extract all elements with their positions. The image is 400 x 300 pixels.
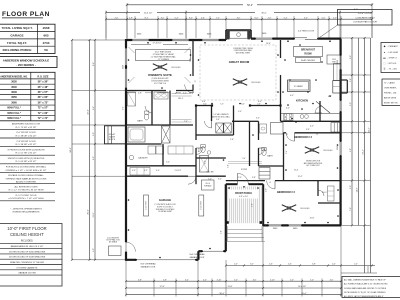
garage service door [126, 242, 135, 251]
pantry door arc [315, 106, 322, 113]
svg-text:BEDROOM # 2: BEDROOM # 2 [277, 190, 295, 194]
svg-text:9'-6": 9'-6" [93, 106, 95, 110]
dimension bottom row1 [126, 280, 341, 282]
svg-text:4x4 CONCRETE: 4x4 CONCRETE [107, 237, 119, 239]
svg-text:36'-0": 36'-0" [219, 293, 225, 295]
garage top wall [126, 175, 188, 177]
owner bath tub [128, 127, 145, 142]
svg-text:72" x 57": 72" x 57" [38, 107, 50, 110]
svg-text:8'-0": 8'-0" [189, 17, 193, 19]
svg-text:CONCRETE PATIO: CONCRETE PATIO [355, 16, 374, 19]
svg-text:5'-0": 5'-0" [166, 161, 170, 163]
interior dimensions [127, 92, 136, 94]
svg-text:4'-0": 4'-0" [286, 108, 290, 110]
breakfast window seat [327, 55, 341, 64]
powder sink [207, 151, 211, 155]
svg-text:ROOM: ROOM [304, 54, 311, 56]
svg-text:TOTAL LIVING SQ.FT.: TOTAL LIVING SQ.FT. [1, 26, 32, 30]
svg-text:7'-6 1/2": 7'-6 1/2" [160, 93, 167, 95]
fireplace [225, 30, 227, 40]
garage entry door [188, 176, 196, 184]
wic bedroom2 [317, 181, 319, 196]
window 3030 bedroom2 bottom 1 [268, 224, 282, 227]
svg-text:2'-0": 2'-0" [238, 177, 242, 179]
ceiling fan owner suite [160, 67, 167, 70]
svg-text:- STRIP LT: - STRIP LT [388, 57, 398, 59]
svg-text:4'-0": 4'-0" [252, 203, 254, 207]
svg-text:R.O. SIZE: R.O. SIZE [38, 75, 49, 78]
svg-text:DOORS IN LIEU OF 3049 WINDOWS: DOORS IN LIEU OF 3049 WINDOWS [9, 257, 46, 259]
svg-text:NOTE EGRESS 5.7 SQ.FT. OF CLEA: NOTE EGRESS 5.7 SQ.FT. OF CLEAR OPENING [344, 291, 386, 294]
svg-text:R.O. 72 3/4" x 82 7/8": R.O. 72 3/4" x 82 7/8" [16, 127, 37, 129]
dimension bottom row0 [226, 265, 375, 267]
svg-text:3'-4": 3'-4" [286, 150, 288, 154]
owner suite bottom wall [126, 90, 166, 92]
svg-text:10'-0": 10'-0" [199, 147, 201, 152]
svg-text:3060: 3060 [11, 101, 17, 104]
laundry room walls [126, 143, 162, 145]
svg-text:5'-0": 5'-0" [322, 17, 326, 19]
kitchen sink [300, 115, 304, 119]
svg-text:5'-0": 5'-0" [93, 248, 95, 252]
svg-text:4'-6": 4'-6" [201, 17, 205, 19]
exterior wall top-right (breakfast) [251, 37, 341, 39]
window 3056 owner suite top 2 [172, 39, 190, 42]
svg-text:EGRESS REQUIREMENTS: EGRESS REQUIREMENTS [13, 212, 40, 214]
svg-text:3'-0": 3'-0" [205, 160, 207, 164]
svg-text:3'-0": 3'-0" [256, 118, 260, 120]
front door arc [238, 173, 249, 184]
svg-text:$: $ [270, 182, 271, 184]
window breakfast right wall [339, 55, 342, 70]
window schedule table [0, 72, 55, 121]
svg-text:36" x 57": 36" x 57" [38, 91, 50, 94]
dimension right chains [351, 38, 353, 225]
svg-text:36'-0": 36'-0" [261, 12, 267, 14]
laundry counter [168, 146, 193, 154]
svg-text:3040: 3040 [11, 86, 17, 89]
svg-text:5'-0": 5'-0" [238, 111, 242, 113]
svg-text:72" x 66": 72" x 66" [38, 112, 50, 115]
svg-text:FOYER: FOYER [241, 169, 248, 171]
svg-text:◆: ◆ [384, 45, 386, 48]
window owner suite left wall [125, 48, 128, 67]
svg-text:SMOKE DETECTOR: SMOKE DETECTOR [306, 161, 321, 163]
svg-text:5'-0": 5'-0" [242, 158, 246, 160]
window bedroom3 right wall [339, 141, 342, 156]
dimension bottom tick slashes [125, 280, 127, 282]
dimension right extension lines [341, 37, 371, 39]
kitchen bottom wall [281, 120, 342, 122]
svg-text:4'-0": 4'-0" [183, 93, 187, 95]
kitchen west wall [280, 40, 282, 58]
svg-text:14'-0": 14'-0" [357, 187, 359, 192]
svg-text:LAUNDRY: LAUNDRY [138, 157, 148, 160]
linen closet [162, 126, 171, 143]
exterior wall top-left (owner suite / great room) [126, 39, 226, 41]
svg-text:3056: 3056 [11, 96, 17, 99]
svg-text:3'-0": 3'-0" [350, 102, 352, 106]
svg-text:4'-0": 4'-0" [290, 95, 294, 97]
svg-text:5' LED STRIP: 5' LED STRIP [201, 201, 203, 210]
svg-text:16'-6 1/2": 16'-6 1/2" [144, 12, 153, 14]
svg-text:9'-4": 9'-4" [203, 103, 207, 105]
svg-text:DOUBLE BATH FANS ARE VENTED TO: DOUBLE BATH FANS ARE VENTED TO OUTSIDE [344, 287, 387, 290]
svg-text:BATH: BATH [137, 120, 143, 123]
water heater furnace closet [202, 180, 215, 190]
svg-text:5' LED STRIP: 5' LED STRIP [145, 201, 147, 210]
svg-text:$: $ [287, 134, 288, 136]
svg-text:6'-8": 6'-8" [138, 279, 142, 281]
svg-text:FLOOR PLAN: FLOOR PLAN [2, 11, 50, 18]
foyer shelf [228, 161, 262, 163]
exterior wall bedroom2 bottom [263, 224, 341, 226]
svg-text:31'-4": 31'-4" [369, 127, 371, 133]
bedroom3 door [286, 133, 294, 141]
svg-text:9'x8' OVERHEAD: 9'x8' OVERHEAD [189, 253, 205, 256]
svg-text:R.O. 38 5/8" x 82 1/2": R.O. 38 5/8" x 82 1/2" [16, 135, 37, 137]
svg-text:6'-0": 6'-0" [250, 264, 254, 266]
svg-text:3'-0": 3'-0" [161, 17, 165, 19]
owner suite right wall [192, 40, 194, 76]
svg-text:5'-8 1/2": 5'-8 1/2" [175, 170, 182, 172]
kitchen counters [281, 113, 341, 115]
svg-text:R.O. = 2" TO WIDTH x 83 1/2" H: R.O. = 2" TO WIDTH x 83 1/2" HIGH [9, 190, 44, 192]
svg-text:DOUBLE-HUNG WDWS: DOUBLE-HUNG WDWS [151, 81, 168, 83]
window schedule title [0, 57, 57, 68]
svg-text:4'-6": 4'-6" [269, 264, 273, 266]
svg-text:ALL INTERIOR WALLS ARE 3 1/2": ALL INTERIOR WALLS ARE 3 1/2" UNLESS NOT… [344, 283, 388, 286]
garage front wall jog [197, 251, 199, 260]
svg-text:36" x 72": 36" x 72" [38, 101, 50, 104]
svg-text:- TV + CBL: - TV + CBL [388, 69, 397, 71]
svg-text:3'-0": 3'-0" [218, 178, 222, 180]
dimension left tick slashes [94, 39, 96, 41]
svg-text:4'-6": 4'-6" [330, 279, 334, 281]
owner bath fixtures [128, 92, 136, 106]
svg-text:8'-6": 8'-6" [93, 62, 95, 66]
svg-text:OUTSIDE PATIO DOOR: OUTSIDE PATIO DOOR [353, 21, 377, 24]
svg-text:$: $ [195, 81, 196, 83]
svg-text:9'-4": 9'-4" [202, 101, 206, 103]
svg-text:W.H. &: W.H. & [205, 183, 210, 185]
room label front porch [229, 190, 258, 199]
garage door opening right [202, 250, 224, 253]
svg-text:4'-6": 4'-6" [253, 279, 257, 281]
svg-text:OWNER'S SUITE: OWNER'S SUITE [148, 73, 172, 77]
svg-text:6'-4": 6'-4" [185, 279, 189, 281]
svg-text:- LED LIGHT: - LED LIGHT [388, 52, 400, 54]
svg-text:INCLUDING PORCH: INCLUDING PORCH [3, 48, 32, 52]
svg-text:9'-0": 9'-0" [350, 55, 352, 59]
svg-text:KITCHEN: KITCHEN [296, 99, 308, 103]
concrete patio note box [338, 10, 393, 26]
svg-text:3056: 3056 [122, 65, 124, 69]
svg-text:5'-0": 5'-0" [234, 279, 238, 281]
wic built-in shelves [328, 186, 335, 201]
great room tray ceiling dashed [200, 45, 276, 100]
svg-text:DET. COMBO UNIT: DET. COMBO UNIT [306, 165, 319, 167]
tv note box [382, 79, 400, 106]
svg-text:ENTRY KEY PD: ENTRY KEY PD [384, 103, 398, 105]
svg-text:4'-8": 4'-8" [138, 93, 142, 95]
ceiling fan great room [240, 82, 247, 85]
svg-text:GARAGE DOOR: GARAGE DOOR [190, 256, 205, 259]
svg-text:3' FRONT DOORS WITH (1) SIDELI: 3' FRONT DOORS WITH (1) SIDELITE [7, 149, 45, 151]
dimension right tick slashes [351, 37, 353, 39]
dimension top row2 [106, 11, 140, 13]
svg-text:4'-0": 4'-0" [234, 264, 238, 266]
svg-text:17'-10 1/2": 17'-10 1/2" [152, 43, 161, 45]
svg-text:5'-4": 5'-4" [175, 17, 179, 19]
svg-text:GARAGE: GARAGE [10, 34, 23, 38]
powder room [201, 147, 205, 153]
svg-text:6'-8" x 4'-0": 6'-8" x 4'-0" [239, 196, 248, 198]
laundry-mud divider wall [162, 144, 164, 166]
svg-text:9'-6": 9'-6" [122, 106, 124, 110]
garage front wall left [126, 259, 198, 261]
svg-text:OPENING TAKE SAME AS BOTH DOOR: OPENING TAKE SAME AS BOTH DOORS [6, 177, 47, 180]
svg-text:17'-8": 17'-8" [159, 286, 164, 288]
hall to bedrooms [249, 121, 251, 166]
kitchen breakfast outlets [299, 44, 301, 46]
svg-text:5'-8": 5'-8" [163, 279, 167, 281]
window 3030 bedroom2 bottom 2 [288, 224, 302, 227]
svg-text:$: $ [244, 181, 245, 183]
svg-text:6'-0": 6'-0" [255, 17, 259, 19]
dimension bottom row3 [126, 294, 341, 296]
svg-text:26'-6": 26'-6" [88, 209, 90, 215]
svg-text:3'-0": 3'-0" [304, 17, 308, 19]
svg-text:6060 FULL*: 6060 FULL* [7, 117, 21, 120]
svg-text:R.O. 65 3/8" x 82 1/2": R.O. 65 3/8" x 82 1/2" [16, 161, 37, 163]
svg-text:- 12" CORNERS: - 12" CORNERS [157, 59, 169, 61]
svg-text:BASEBOARDS IN LIEU OF 3 1/4": BASEBOARDS IN LIEU OF 3 1/4" [11, 245, 44, 248]
svg-text:FLAT CEILING: FLAT CEILING [301, 59, 315, 62]
svg-text:3'-0": 3'-0" [350, 185, 352, 189]
svg-text:CEILING HEIGHT: CEILING HEIGHT [10, 232, 44, 237]
svg-text:2'-6": 2'-6" [350, 78, 352, 82]
garage front wall right [198, 250, 226, 252]
svg-text:GARAGE: GARAGE [159, 198, 171, 202]
dimension top overall 56'-0 [127, 4, 243, 6]
svg-text:4'-10": 4'-10" [217, 279, 222, 281]
hall west wall [195, 106, 197, 141]
ceiling fan bedroom2 [289, 208, 296, 211]
svg-text:SLOPE TO DOORS 2": SLOPE TO DOORS 2" [157, 206, 174, 208]
porch right wall [262, 184, 264, 226]
svg-text:- 200 SERIES -: - 200 SERIES - [16, 63, 36, 67]
svg-text:14'-0" x 14'-0": 14'-0" x 14'-0" [358, 13, 372, 15]
breakfast room label box [294, 47, 323, 57]
svg-text:ADDED TOGETHER: ADDED TOGETHER [16, 181, 36, 184]
svg-text:2'-6": 2'-6" [257, 103, 261, 105]
svg-text:DOORS IN LIEU OF 3056 WINDOWS: DOORS IN LIEU OF 3056 WINDOWS [9, 251, 46, 253]
svg-text:5'-0": 5'-0" [228, 164, 230, 168]
svg-text:2'-0": 2'-0" [208, 178, 212, 180]
hall bath fixtures [271, 123, 284, 135]
svg-text:3030: 3030 [11, 81, 17, 84]
patio door [294, 37, 318, 40]
great room south wall [196, 105, 212, 107]
svg-text:3'-0": 3'-0" [190, 58, 192, 62]
svg-text:ANDERSEN MODEL NO.: ANDERSEN MODEL NO. [0, 75, 28, 78]
mud lockers [331, 123, 341, 133]
svg-text:5'-0": 5'-0" [221, 230, 223, 234]
svg-text:2'-0": 2'-0" [354, 264, 358, 266]
hall bath walls [259, 165, 284, 167]
porch posts [226, 221, 229, 224]
svg-text:5'-0": 5'-0" [310, 279, 314, 281]
dimension left extension lines [72, 39, 126, 41]
svg-text:36" x 66": 36" x 66" [38, 96, 50, 99]
general notes box bottom right [342, 277, 400, 298]
window 3056 great room [202, 39, 220, 42]
svg-text:7'-2": 7'-2" [220, 103, 224, 105]
svg-text:36" x 36": 36" x 36" [38, 81, 50, 84]
wic shelving [172, 93, 192, 95]
svg-text:4'-0" PATIO DOOR: 4'-0" PATIO DOOR [298, 29, 315, 32]
right wall chimney bump [341, 79, 347, 81]
svg-text:4'-0": 4'-0" [310, 125, 314, 127]
garage door opening left [136, 258, 196, 261]
porch decking [227, 187, 229, 224]
dimension top row3 [106, 18, 372, 20]
bath door arc [145, 106, 152, 113]
washer dryer [216, 123, 223, 133]
linen hall closet [259, 168, 270, 180]
svg-text:4'-4": 4'-4" [332, 264, 336, 266]
mud corridor walls [250, 120, 259, 122]
window 3056 owner suite top 1 [132, 39, 150, 42]
svg-text:59: 59 [44, 48, 48, 52]
garage LED strip right [199, 195, 204, 216]
mudroom bottom wall [126, 165, 196, 167]
bedroom2 top wall [226, 180, 265, 182]
svg-text:6'-8": 6'-8" [312, 264, 316, 266]
svg-text:34'-6": 34'-6" [70, 147, 72, 153]
svg-text:4'-0": 4'-0" [237, 17, 241, 19]
svg-text:4'-0": 4'-0" [203, 279, 207, 281]
svg-text:32'-6": 32'-6" [88, 109, 90, 115]
laundry door arc [205, 121, 212, 128]
svg-text:GARAGE DOORS: GARAGE DOORS [18, 272, 36, 275]
svg-text:BY-PASS DOORS USING DRYWALL: BY-PASS DOORS USING DRYWALL [8, 174, 44, 177]
glass block shower bump [105, 126, 127, 144]
svg-text:5'-8": 5'-8" [350, 148, 352, 152]
svg-text:4'-10": 4'-10" [270, 279, 275, 281]
dimension left overall 34'-6 [71, 40, 73, 260]
svg-text:2'-8" FRONT DOOR: 2'-8" FRONT DOOR [16, 141, 36, 143]
tray ceiling note box owner suite [136, 50, 191, 61]
svg-text:12'-4": 12'-4" [298, 176, 303, 178]
svg-text:3'-0": 3'-0" [132, 170, 136, 172]
concrete stoop pad [109, 246, 122, 256]
svg-text:3049: 3049 [11, 91, 17, 94]
bedroom2 door [267, 181, 275, 189]
svg-text:OPENING = 1 1/2" + DOOR SIZE x: OPENING = 1 1/2" + DOOR SIZE x 81 1/2" [5, 170, 46, 172]
dimension bottom row2 [126, 287, 341, 289]
svg-text:72" x 72": 72" x 72" [38, 117, 50, 120]
svg-text:21'-4": 21'-4" [363, 149, 365, 155]
svg-text:= DOOR WIDTH + 7 1/2" x 82" HI: = DOOR WIDTH + 7 1/2" x 82" HIGH [8, 198, 44, 200]
svg-text:* - DENOTES OPENING MEETS: * - DENOTES OPENING MEETS [10, 208, 42, 210]
svg-text:5'-0": 5'-0" [290, 279, 294, 281]
svg-text:FRONT DOORS WITH (2) SIDELITES: FRONT DOORS WITH (2) SIDELITES [8, 158, 45, 160]
mud bench [130, 168, 150, 176]
porch top wall / front entry [226, 183, 238, 185]
exterior wall left [125, 39, 127, 242]
svg-text:3'-8": 3'-8" [252, 177, 256, 179]
svg-text:15'-8": 15'-8" [310, 218, 315, 220]
svg-text:ANDERSEN SLIDING DOOR: ANDERSEN SLIDING DOOR [12, 123, 41, 126]
svg-text:- PENDANT: - PENDANT [388, 45, 399, 48]
svg-text:TOTAL SQ.FT.: TOTAL SQ.FT. [7, 41, 27, 45]
porch-garage wall [225, 184, 227, 251]
window 3056 breakfast [255, 37, 273, 40]
svg-text:W.I.C.: W.I.C. [322, 192, 328, 194]
svg-text:10'-0" FIRST FLOOR: 10'-0" FIRST FLOOR [7, 226, 46, 231]
svg-text:KITCHEN CABINETS: KITCHEN CABINETS [17, 266, 38, 269]
svg-text:4'-0": 4'-0" [333, 17, 337, 19]
svg-text:⬚: ⬚ [383, 62, 385, 65]
svg-text:R.O. 51 7/8" x 82 1/2": R.O. 51 7/8" x 82 1/2" [16, 153, 37, 155]
svg-text:6049 FULL*: 6049 FULL* [7, 107, 21, 110]
svg-text:FRONT PORCH: FRONT PORCH [235, 193, 252, 195]
svg-text:- 8FT LED: - 8FT LED [388, 63, 397, 65]
svg-text:9'x8' OVERHEAD: 9'x8' OVERHEAD [140, 262, 156, 265]
ceiling fan bedroom3 [312, 150, 319, 153]
svg-text:14'-6": 14'-6" [266, 43, 271, 45]
svg-text:665: 665 [43, 34, 48, 38]
svg-text:2'-0": 2'-0" [268, 17, 272, 19]
svg-text:INCLUDES:: INCLUDES: [21, 240, 34, 242]
svg-text:6'-0": 6'-0" [258, 101, 262, 103]
owner tray corner diagonals [129, 47, 135, 53]
svg-text:ALL INTERIOR DOORS: ALL INTERIOR DOORS [15, 185, 39, 188]
central laundry walls [211, 106, 213, 122]
svg-text:2'-8": 2'-8" [266, 188, 268, 192]
svg-text:2'-0": 2'-0" [115, 17, 119, 19]
svg-text:PHONE + CBL: PHONE + CBL [384, 93, 397, 95]
table square-footage [0, 24, 55, 53]
ceiling height box [0, 224, 62, 287]
svg-text:BLOCK: BLOCK [109, 139, 116, 141]
dimension top extension lines [105, 16, 107, 38]
svg-text:7'-2": 7'-2" [216, 17, 220, 19]
svg-text:4'-6": 4'-6" [288, 264, 292, 266]
svg-text:3040: 3040 [337, 146, 339, 150]
svg-text:$: $ [317, 134, 318, 136]
svg-text:56'-0": 56'-0" [247, 5, 253, 7]
foyer closet [200, 156, 209, 173]
svg-text:2068: 2068 [43, 26, 50, 30]
svg-text:ALL BRICK LAYOUT MEASUREMENTS: ALL BRICK LAYOUT MEASUREMENTS ARE 4" [344, 295, 384, 298]
dimension bottom extension lines [125, 260, 127, 297]
porch steps [228, 229, 263, 231]
electrical legend box [381, 43, 400, 73]
svg-text:BEDROOM # 3: BEDROOM # 3 [294, 135, 312, 139]
dimension left chain2 [89, 40, 91, 260]
svg-text:GREAT ROOM: GREAT ROOM [229, 60, 250, 64]
svg-text:3'-6": 3'-6" [306, 129, 310, 131]
svg-text:ALL WALL DIMENSIONS ARE FACE T: ALL WALL DIMENSIONS ARE FACE TO FACE OF [344, 279, 387, 282]
svg-text:3'-0": 3'-0" [156, 170, 160, 172]
svg-text:3'-2": 3'-2" [144, 170, 148, 172]
svg-text:21'-6": 21'-6" [93, 212, 95, 217]
svg-text:7'-4": 7'-4" [184, 121, 188, 123]
svg-text:ABOVE DESK: ABOVE DESK [384, 97, 397, 100]
